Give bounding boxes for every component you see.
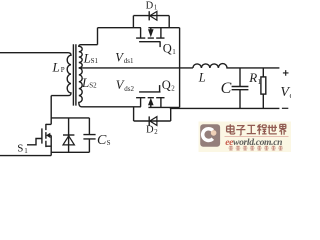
svg-text:o: o [290, 91, 292, 100]
svg-text:S: S [17, 143, 23, 155]
diode D2 right vertical [170, 108, 172, 121]
svg-text:2: 2 [154, 129, 158, 136]
logo white crescent [203, 129, 213, 141]
transistor Q2 channel segments [136, 97, 164, 99]
wire S1 source vertical [50, 135, 52, 155]
diode D2 cathode bar [148, 116, 150, 125]
transformer secondary winding Ls1 coil [79, 45, 98, 68]
diode D2 wire [134, 120, 171, 122]
transistor Q1 body arrow [148, 29, 154, 37]
svg-text:1: 1 [257, 77, 261, 86]
transistor S1 gate lead [27, 139, 42, 145]
svg-text:Q: Q [162, 78, 171, 92]
transistor Q2 body stem [150, 105, 152, 108]
logo peach dot [211, 130, 217, 136]
transistor Q2 drain lead [140, 98, 142, 107]
svg-text:1: 1 [154, 5, 157, 12]
logo backdrop [199, 122, 292, 153]
logo char dian [227, 124, 235, 134]
logo tiny slogan glyphs [229, 146, 234, 151]
logo red square [200, 124, 220, 146]
diode D1 cathode bar [148, 11, 150, 20]
diode D1 wire [133, 15, 169, 17]
svg-text:D: D [146, 0, 154, 11]
diode D1 right vertical [168, 16, 170, 28]
transistor Q1 source lead [160, 28, 162, 38]
transistor Q1 channel segments [136, 37, 164, 39]
svg-text:D: D [146, 125, 154, 136]
wire output bottom rail [170, 107, 280, 109]
logo char cheng [257, 124, 267, 134]
capacitor C top lead [239, 68, 241, 86]
diode D2 left vertical [133, 107, 135, 121]
logo char jie [279, 124, 286, 134]
transistor Q1 body stem [150, 28, 152, 30]
transistor S1 body stem [50, 134, 52, 136]
svg-text:1: 1 [24, 147, 28, 155]
svg-text:C: C [97, 133, 107, 148]
diode D2 triangle [150, 117, 157, 126]
transformer core bars [73, 44, 76, 105]
wire snubber bottom rail [51, 151, 89, 153]
transistor S1 gate bar [41, 128, 43, 143]
svg-text:S: S [107, 139, 111, 147]
svg-text:S1: S1 [91, 57, 99, 65]
inductor L [193, 64, 280, 68]
logo char gong [247, 125, 256, 133]
capacitor Cs plates [83, 135, 95, 139]
svg-text:S2: S2 [89, 81, 97, 89]
diode D1 triangle [150, 11, 157, 20]
svg-text:R: R [248, 70, 257, 85]
wire center tap to inductor [79, 67, 193, 69]
snubber diode triangle [63, 136, 74, 145]
label plus [283, 70, 289, 76]
resistor R1 bottom lead [262, 94, 264, 108]
transistor S1 source lead [46, 145, 51, 147]
logo char shi [268, 125, 277, 134]
transistor S1 drain lead [46, 123, 51, 125]
transistor Q2 gate bar [139, 91, 160, 93]
wire Q2 source segment [148, 106, 179, 108]
wire input top rail [0, 52, 68, 54]
svg-text:C: C [221, 80, 232, 97]
capacitor Cs top lead [88, 118, 90, 134]
label minus [282, 107, 288, 109]
wire Ls1 top to node [97, 28, 99, 45]
svg-text:ds2: ds2 [124, 85, 134, 93]
resistor R1 body [261, 77, 266, 94]
wire input bottom rail [0, 155, 51, 157]
transistor S1 body arrow [46, 133, 50, 138]
transistor Q1 gate lead [159, 42, 161, 47]
svg-text:L: L [198, 70, 206, 84]
wire common source vertical [179, 28, 181, 108]
svg-text:Q: Q [163, 41, 172, 55]
logo underline [225, 135, 289, 137]
capacitor Cs bottom lead [88, 139, 90, 152]
svg-text:2: 2 [171, 85, 175, 93]
snubber diode wire [68, 118, 70, 152]
diode D1 left vertical [132, 16, 134, 28]
transistor S1 channel segments [45, 124, 47, 147]
transistor Q2 source lead [160, 98, 162, 108]
svg-text:L: L [81, 75, 89, 90]
capacitor C bottom lead [239, 90, 241, 109]
wire top left segment to Q1 drain [98, 27, 141, 29]
transformer secondary winding Ls2 coil [79, 68, 141, 107]
svg-text:ds1: ds1 [124, 57, 134, 65]
transformer primary winding Lp coil [51, 53, 71, 96]
transistor Q1 drain lead [140, 28, 142, 38]
logo char zi [236, 126, 245, 135]
svg-text:L: L [83, 50, 91, 65]
transistor Q1 gate bar [139, 41, 160, 43]
resistor R1 top lead [262, 68, 264, 77]
eeworld watermark logo [199, 122, 292, 153]
transistor Q2 body arrow [148, 98, 154, 105]
snubber diode cathode bar [63, 134, 74, 136]
svg-text:P: P [61, 66, 65, 74]
svg-text:1: 1 [172, 48, 176, 56]
wire primary bottom to S1 drain [50, 96, 52, 125]
transistor Q2 gate lead [159, 85, 161, 92]
capacitor C plates [232, 87, 249, 90]
svg-text:L: L [52, 60, 60, 75]
wire Q1 source segment [148, 27, 179, 29]
wire snubber top rail [51, 117, 89, 119]
